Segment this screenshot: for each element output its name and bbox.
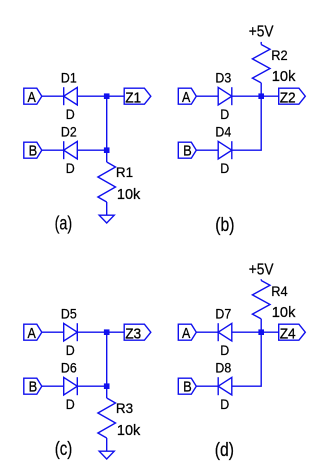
output port Z2 (b): [279, 88, 306, 106]
svg-text:D: D: [220, 342, 229, 358]
svg-text:D5: D5: [61, 305, 77, 321]
wire D4 up to output node: [232, 96, 261, 150]
svg-text:A: A: [182, 90, 191, 106]
wire +5V to resistor R4: [260, 279, 262, 280]
junction at resistor node (c): [104, 383, 110, 389]
svg-text:D3: D3: [215, 69, 231, 85]
wire A to D7: [196, 331, 218, 333]
ground symbol (a): [99, 215, 114, 223]
ground symbol (c): [99, 451, 114, 459]
svg-text:D7: D7: [215, 305, 231, 321]
resistor R1: [98, 162, 116, 202]
input port A (b): [178, 88, 196, 106]
diode D4: [218, 141, 232, 159]
diode D2: [64, 141, 78, 159]
svg-text:B: B: [29, 380, 38, 396]
diode D6: [64, 377, 78, 395]
svg-text:R4: R4: [271, 284, 288, 299]
svg-text:R3: R3: [116, 401, 134, 416]
svg-text:D: D: [66, 160, 75, 176]
diode D5: [64, 323, 78, 341]
svg-text:D: D: [66, 106, 75, 122]
input port B (b): [178, 142, 196, 160]
svg-text:D: D: [220, 396, 229, 412]
diode D7: [218, 323, 232, 341]
svg-text:Z3: Z3: [125, 325, 141, 342]
input port A (c): [24, 324, 42, 342]
svg-text:(c): (c): [55, 438, 73, 460]
vertical wire output node to resistor R1: [106, 96, 108, 162]
svg-text:Z4: Z4: [280, 325, 296, 342]
input port A (d): [178, 324, 196, 342]
svg-text:(a): (a): [55, 213, 73, 235]
junction at output node (c): [104, 329, 110, 335]
wire B to D8: [196, 385, 218, 387]
input port B (c): [24, 378, 42, 396]
svg-text:R2: R2: [271, 48, 287, 63]
junction at output node (a): [104, 93, 110, 99]
output port Z3 (c): [124, 324, 151, 342]
svg-text:D: D: [220, 106, 229, 122]
svg-text:+5V: +5V: [249, 262, 274, 279]
svg-text:Z1: Z1: [125, 89, 141, 106]
input port B (a): [24, 142, 42, 160]
input port B (d): [178, 378, 196, 396]
wire +5V to resistor R2: [260, 42, 262, 45]
svg-text:10k: 10k: [117, 423, 141, 439]
svg-text:10k: 10k: [272, 305, 296, 321]
diode D8: [218, 377, 232, 395]
svg-text:B: B: [29, 144, 38, 160]
svg-text:(b): (b): [215, 214, 234, 236]
wire R4 to output node: [260, 319, 262, 332]
wire D7 to output node: [232, 331, 279, 333]
svg-text:(d): (d): [215, 439, 234, 461]
svg-text:D2: D2: [61, 123, 77, 139]
svg-text:10k: 10k: [272, 69, 296, 85]
wire D1 to output node: [77, 95, 124, 97]
wire B to D4: [196, 149, 218, 151]
svg-text:D: D: [220, 160, 229, 176]
wire D5 to output node: [77, 331, 124, 333]
vertical wire output node to resistor R3: [106, 332, 108, 398]
wire R2 to output node: [260, 83, 262, 96]
resistor R2: [252, 45, 270, 83]
svg-text:D: D: [66, 396, 75, 412]
wire B to D2: [42, 149, 64, 151]
input port A (a): [24, 88, 42, 106]
svg-text:R1: R1: [116, 165, 133, 180]
wire B to D6: [42, 385, 64, 387]
svg-text:Z2: Z2: [280, 89, 296, 106]
wire A to D1: [42, 95, 64, 97]
wire R1 to ground: [106, 202, 108, 215]
wire A to D3: [196, 95, 218, 97]
svg-text:B: B: [183, 380, 192, 396]
svg-text:+5V: +5V: [249, 24, 274, 41]
svg-text:10k: 10k: [117, 187, 141, 203]
wire D6 to resistor node: [77, 385, 106, 387]
svg-text:D4: D4: [215, 123, 231, 139]
wire D3 to output node: [232, 95, 279, 97]
output port Z4 (d): [279, 324, 306, 342]
diode D1: [64, 87, 78, 105]
output port Z1 (a): [124, 88, 151, 106]
wire A to D5: [42, 331, 64, 333]
svg-text:D: D: [66, 342, 75, 358]
resistor R4: [252, 281, 270, 319]
svg-text:A: A: [182, 326, 191, 342]
wire D2 to resistor node: [77, 149, 106, 151]
diode D3: [218, 87, 232, 105]
resistor R3: [98, 398, 116, 438]
svg-text:D6: D6: [61, 359, 77, 375]
junction at resistor node (a): [104, 147, 110, 153]
svg-text:A: A: [28, 326, 37, 342]
junction at output node (d): [258, 329, 264, 335]
svg-text:D8: D8: [215, 359, 231, 375]
wire R3 to ground: [106, 438, 108, 451]
svg-text:A: A: [28, 90, 37, 106]
junction at output node (b): [258, 93, 264, 99]
wire D8 up to output node: [232, 332, 261, 386]
svg-text:B: B: [183, 144, 192, 160]
svg-text:D1: D1: [61, 69, 77, 85]
